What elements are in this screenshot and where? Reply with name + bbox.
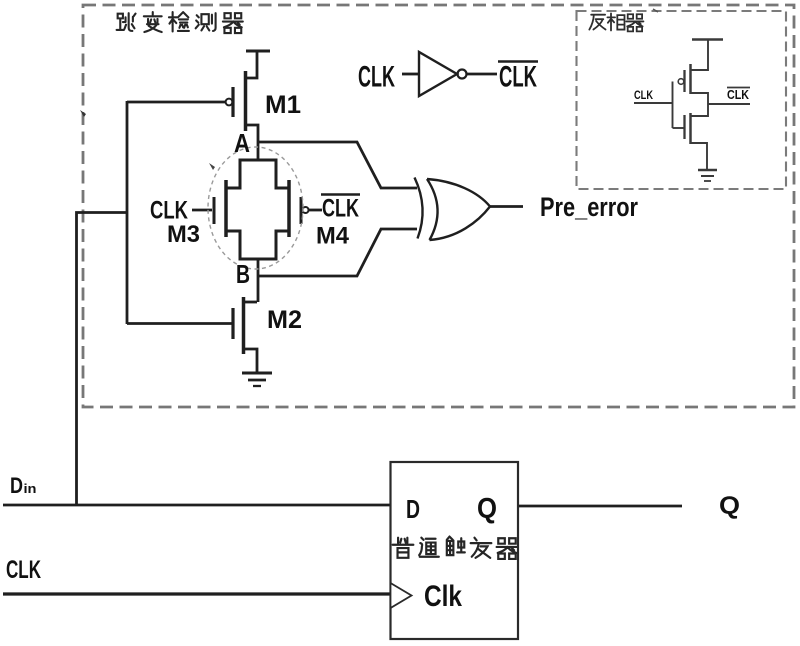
svg-text:D: D xyxy=(406,494,420,524)
svg-text:Q: Q xyxy=(477,493,497,525)
svg-text:M2: M2 xyxy=(267,306,302,334)
svg-text:A: A xyxy=(234,128,250,158)
svg-text:B: B xyxy=(236,259,250,289)
svg-text:in: in xyxy=(24,481,37,496)
svg-text:Q: Q xyxy=(719,492,740,520)
svg-text:M4: M4 xyxy=(316,223,350,250)
svg-text:CLK: CLK xyxy=(634,88,653,102)
svg-text:Clk: Clk xyxy=(424,580,462,613)
svg-text:M3: M3 xyxy=(167,221,200,248)
svg-text:CLK: CLK xyxy=(358,61,395,94)
svg-text:CLK: CLK xyxy=(727,87,750,102)
svg-text:D: D xyxy=(10,473,23,498)
svg-text:Pre_error: Pre_error xyxy=(540,192,638,222)
svg-text:M1: M1 xyxy=(265,91,301,119)
svg-text:CLK: CLK xyxy=(322,195,359,223)
svg-text:CLK: CLK xyxy=(499,61,537,94)
svg-text:CLK: CLK xyxy=(6,556,41,584)
